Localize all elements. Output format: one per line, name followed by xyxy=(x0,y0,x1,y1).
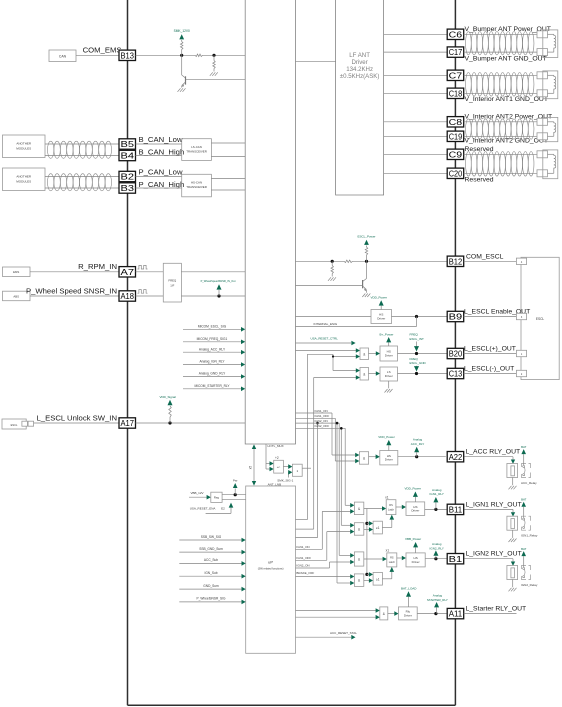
branch to IGN1 lower gate xyxy=(340,428,342,525)
RS latch U9 xyxy=(386,500,396,515)
svg-text:CAN: CAN xyxy=(59,55,67,59)
wire ESCL gate in1 from MICOM xyxy=(296,350,357,352)
ground GND-U7 xyxy=(388,381,390,388)
svg-text:TRANSCEIVER: TRANSCEIVER xyxy=(186,185,207,189)
ABS module box xyxy=(3,291,31,301)
wire HS-CAN to MICOM b xyxy=(211,189,245,191)
svg-text:Driver: Driver xyxy=(404,613,412,617)
wire LS-CAN to MICOM b xyxy=(211,156,245,158)
pin C6 xyxy=(447,29,464,39)
svg-text:MODULES: MODULES xyxy=(16,146,31,150)
wire uP aux column xyxy=(296,537,318,539)
net IGN_Sub xyxy=(179,575,242,577)
wire B4 to transceiver xyxy=(136,155,182,157)
svg-text:P_WheelSNSR_SIG: P_WheelSNSR_SIG xyxy=(196,597,226,601)
power VDD_Power B9 xyxy=(380,306,382,310)
svg-text:C17: C17 xyxy=(449,48,463,57)
wire U10 to B11 xyxy=(425,508,447,510)
svg-text:C7: C7 xyxy=(449,71,463,80)
antenna ANT3 coil body xyxy=(543,117,558,141)
power B+_Power B20 xyxy=(388,342,390,346)
svg-text:VDD_Power: VDD_Power xyxy=(405,487,422,491)
svg-text:(SW related functions): (SW related functions) xyxy=(258,567,284,571)
antenna ANT2 coil body xyxy=(543,71,558,99)
svg-text:MICOM_FREQ_SIG1: MICOM_FREQ_SIG1 xyxy=(197,337,228,341)
RS latch U11 xyxy=(387,553,397,567)
svg-text:ACC_Sub: ACC_Sub xyxy=(204,558,218,562)
svg-text:Reg: Reg xyxy=(214,496,220,500)
pin A17 xyxy=(119,418,136,428)
relay IGN2_Relay coil xyxy=(507,566,518,580)
wire ESCL switch to A17 xyxy=(34,422,119,424)
pin B2 xyxy=(119,171,136,181)
svg-text:FREQ: FREQ xyxy=(168,279,177,283)
bus MICOM to uP xyxy=(253,449,255,482)
node J8 xyxy=(415,455,418,458)
wire B5 to transceiver xyxy=(136,143,182,145)
wire U7 to C13 xyxy=(398,373,448,375)
node J4 xyxy=(365,260,368,263)
svg-text:Driver: Driver xyxy=(351,59,367,66)
net P_WheelSNSR_SIG xyxy=(179,601,242,603)
power tap xyxy=(234,488,236,494)
svg-text:SSB_GND_Sum: SSB_GND_Sum xyxy=(199,547,223,551)
LF ANT Driver block U-LF xyxy=(336,0,384,195)
resistor R-pullup B13 xyxy=(181,50,183,56)
wire latch to HS driver xyxy=(397,557,403,559)
wire LF driver to C19 xyxy=(384,135,448,137)
net IGN2_ON from MICOM xyxy=(296,422,340,424)
pin B13 xyxy=(119,50,136,60)
svg-text:RS: RS xyxy=(389,504,393,507)
svg-text:SMK_12V0: SMK_12V0 xyxy=(174,29,190,33)
svg-text:BAT: BAT xyxy=(521,547,527,551)
twisted pair antenna ANT4 xyxy=(466,152,472,177)
wire B2 to transceiver xyxy=(136,176,182,178)
or gate G9 IGN2 xyxy=(367,573,370,575)
svg-text:L_ESCL(-)_OUT: L_ESCL(-)_OUT xyxy=(464,366,514,373)
pin B20 xyxy=(447,348,464,358)
svg-text:±0.5KHz(ASK): ±0.5KHz(ASK) xyxy=(340,73,380,80)
net SSB_SW_SIG xyxy=(179,539,242,541)
ground GND-term xyxy=(210,72,213,76)
svg-text:Driver: Driver xyxy=(412,560,420,564)
svg-text:IGN1_ON: IGN1_ON xyxy=(315,409,328,413)
node J1 xyxy=(180,54,183,57)
pin B1 xyxy=(447,554,464,564)
svg-text:+/-: +/- xyxy=(277,465,281,469)
wire ESCL direction from uP xyxy=(296,528,314,530)
ground GND-Q2 xyxy=(362,294,365,298)
svg-text:x1: x1 xyxy=(385,495,389,499)
wire C9 to antenna ANT4 xyxy=(464,153,537,155)
uP output stub 4 IGN1_ON xyxy=(296,548,323,550)
or gate G6 IGN1 xyxy=(367,522,370,524)
svg-text:+2: +2 xyxy=(275,456,279,460)
svg-text:VDD_Signal: VDD_Signal xyxy=(160,395,177,399)
relay IGN1_Relay coil xyxy=(507,516,518,530)
wire C19 to antenna ANT3 xyxy=(464,135,537,137)
ground GND-J3 xyxy=(328,277,331,281)
svg-text:V_Interior ANT1 GND_OUT: V_Interior ANT1 GND_OUT xyxy=(465,96,548,103)
svg-text:IGN2_RLY: IGN2_RLY xyxy=(430,546,444,550)
antenna ANT3 connector pad 2 xyxy=(537,133,548,140)
relay ACC_Relay contact xyxy=(522,464,527,468)
MICOM block (box A) xyxy=(245,0,295,444)
relay ACC_Relay coil xyxy=(507,464,518,478)
and gate G10 starter xyxy=(376,608,380,613)
SMK main block left border xyxy=(127,0,129,705)
wire C18 to antenna ANT2 xyxy=(464,92,537,94)
svg-text:ESCL: ESCL xyxy=(536,317,545,321)
svg-text:Analog_GND_RLY: Analog_GND_RLY xyxy=(199,372,226,376)
wire MICOM to LF ANT driver xyxy=(296,61,336,63)
svg-text:Latch: Latch xyxy=(388,508,395,511)
wire B20 to ESCL module xyxy=(464,353,517,355)
svg-text:V_Bumper ANT GND_OUT: V_Bumper ANT GND_OUT xyxy=(465,56,547,63)
svg-text:Driver: Driver xyxy=(385,458,393,462)
svg-text:Analog: Analog xyxy=(433,594,443,598)
and gate G4 IGN1 upper xyxy=(350,503,354,508)
wire C13 to ESCL module xyxy=(464,373,517,375)
svg-text:L_ACC RLY_OUT: L_ACC RLY_OUT xyxy=(466,449,521,456)
ground GND-ACC_Relay xyxy=(509,486,512,490)
svg-text:B3: B3 xyxy=(121,184,135,193)
relay driver U13 xyxy=(399,607,418,620)
pulse symbol A18 xyxy=(138,290,148,294)
svg-text:A22: A22 xyxy=(449,453,463,462)
wire LS-CAN to MICOM a xyxy=(211,142,245,144)
pin B11 xyxy=(447,504,464,514)
svg-text:IGN_Sub: IGN_Sub xyxy=(204,571,217,575)
svg-text:BRAKE_OFF: BRAKE_OFF xyxy=(296,571,314,575)
svg-text:V_Interior ANT2 GND_OUT: V_Interior ANT2 GND_OUT xyxy=(465,138,548,145)
svg-text:IGN2_ON: IGN2_ON xyxy=(296,564,309,568)
power BAT_LOAD starter xyxy=(408,597,410,607)
svg-text:MICOM_STARTER_RLY: MICOM_STARTER_RLY xyxy=(194,384,230,388)
antenna ANT4 connector pad 1 xyxy=(537,151,548,158)
svg-text:IGN1_OFF: IGN1_OFF xyxy=(315,414,330,418)
svg-text:x1: x1 xyxy=(386,548,390,552)
svg-text:GND_Sum: GND_Sum xyxy=(203,584,219,588)
svg-text:HS-CAN: HS-CAN xyxy=(191,181,202,185)
SMK main block bottom border xyxy=(128,704,456,706)
wire D1 to D2 xyxy=(283,466,288,468)
svg-text:IGN1_RLY: IGN1_RLY xyxy=(430,492,444,496)
svg-text:Analog: Analog xyxy=(432,542,442,546)
node J5 xyxy=(415,315,418,318)
svg-text:Analog_ACC_RLY: Analog_ACC_RLY xyxy=(199,347,226,351)
HS driver U6 xyxy=(380,346,398,361)
svg-text:x5: x5 xyxy=(249,466,253,470)
wire MICOM to HS driver B9 xyxy=(296,316,372,318)
wire EMS to A7 xyxy=(30,271,119,273)
svg-text:≥1: ≥1 xyxy=(376,577,380,581)
wire Reg to uP b xyxy=(222,499,246,501)
wire G4 to latch xyxy=(364,508,383,510)
wire latch to HS driver xyxy=(396,506,403,508)
svg-text:EMS: EMS xyxy=(13,270,19,274)
wire B13 to MICOM xyxy=(136,54,196,56)
pin C7 xyxy=(447,70,464,80)
pin C9 xyxy=(447,149,464,159)
power VDD_Signal xyxy=(168,400,173,405)
svg-text:TRANSCEIVER: TRANSCEIVER xyxy=(186,149,207,153)
wire LF driver to C18 xyxy=(384,92,448,94)
resistor R-pullup COM_ESCL xyxy=(366,255,368,261)
svg-text:INTERNAL_ESIG: INTERNAL_ESIG xyxy=(314,322,338,326)
wire IGN2 gate input 1 xyxy=(339,554,351,556)
wire CAN to B13 xyxy=(76,54,119,56)
svg-text:ESCL: ESCL xyxy=(11,423,18,427)
and gate G7 IGN2 upper xyxy=(350,553,354,558)
net ACC_Sub xyxy=(179,562,242,564)
svg-text:Analog: Analog xyxy=(432,488,442,492)
ESCL module box xyxy=(521,257,559,379)
svg-text:USA_RESET_ENA: USA_RESET_ENA xyxy=(190,506,216,510)
transistor Q2 xyxy=(366,261,368,278)
resistor R-series COM_EMS xyxy=(195,54,203,57)
and gate G5 IGN1 lower xyxy=(350,523,354,528)
wire LF driver to C9 xyxy=(384,153,448,155)
wire G2 to LS driver xyxy=(369,373,377,375)
wire C17 to antenna ANT1 xyxy=(464,51,537,53)
svg-text:uP: uP xyxy=(268,560,273,565)
pin B3 xyxy=(119,183,136,193)
relay IGN1_Relay contact xyxy=(522,516,527,520)
wire C7 to antenna ANT2 xyxy=(464,74,537,76)
svg-text:ABS: ABS xyxy=(13,294,19,298)
wire A18 to freq divider xyxy=(136,295,164,297)
svg-text:B2: B2 xyxy=(121,173,135,182)
feedback column xyxy=(366,509,368,575)
svg-text:B20: B20 xyxy=(449,350,463,359)
net ACC_RESET_STAL xyxy=(296,636,352,638)
wire ACC gate input 2 xyxy=(335,460,355,462)
wire U8 to A22 xyxy=(398,456,446,458)
net IGN1_OFF return xyxy=(296,559,327,561)
ESCL switch module box xyxy=(2,419,26,429)
wire Reg to uP a xyxy=(222,494,246,496)
net MICOM_STARTER_RLY xyxy=(183,388,242,390)
regulator U14 xyxy=(211,492,222,502)
net Analog_GND_RLY xyxy=(183,376,242,378)
wire U13 to A11 xyxy=(417,613,446,615)
wire A17 to MICOM xyxy=(136,422,246,424)
pin C18 xyxy=(447,88,464,98)
wire G3 to HS driver xyxy=(369,456,377,458)
antenna ANT1 coil body xyxy=(543,30,558,58)
svg-text:IGN1_Relay: IGN1_Relay xyxy=(521,534,538,538)
svg-text:134.2KHz: 134.2KHz xyxy=(346,66,373,73)
relay IGN2_Relay contact xyxy=(522,566,527,570)
svg-text:L_IGN2 RLY_OUT: L_IGN2 RLY_OUT xyxy=(466,551,522,558)
svg-text:COM_ESCL: COM_ESCL xyxy=(466,253,504,260)
svg-text:B+_Power: B+_Power xyxy=(380,332,394,336)
svg-text:STARTER_RLY: STARTER_RLY xyxy=(427,598,448,602)
wire B12 to ESCL module xyxy=(464,260,517,262)
power SMK_12V0 xyxy=(179,34,184,39)
HS driver U12 xyxy=(406,553,425,567)
twisted pair antenna ANT1 xyxy=(466,32,472,55)
net SMK_SIG-1 xyxy=(288,472,290,477)
pulse symbol A7 xyxy=(138,265,148,269)
wire B9 to ESCL module xyxy=(464,316,517,318)
CAN module box xyxy=(49,50,76,62)
and gate G3 ACC xyxy=(355,453,359,458)
antenna ANT2 connector pad 1 xyxy=(537,72,548,79)
divider D1 xyxy=(266,463,270,465)
svg-text:ANOTHER: ANOTHER xyxy=(16,174,32,178)
svg-text:B5: B5 xyxy=(121,140,135,149)
pin C20 xyxy=(447,168,464,178)
antenna ANT2 connector pad 2 xyxy=(537,90,548,97)
svg-text:ESCL_Power: ESCL_Power xyxy=(357,235,375,239)
pin B12 xyxy=(447,256,464,266)
svg-text:ANOTHER: ANOTHER xyxy=(16,141,32,145)
svg-text:VDD_Power: VDD_Power xyxy=(378,435,395,439)
twisted pair P_CAN xyxy=(48,174,54,191)
svg-text:BAT_LOAD: BAT_LOAD xyxy=(401,587,417,591)
svg-text:VDD_Power: VDD_Power xyxy=(371,295,388,299)
node J11 xyxy=(434,557,437,560)
node J6 xyxy=(415,352,418,355)
antenna ANT1 connector pad 1 xyxy=(537,31,548,38)
svg-text:B4: B4 xyxy=(121,152,135,161)
node J12 xyxy=(365,573,368,576)
wire A11 output xyxy=(464,613,517,615)
HS driver U5 xyxy=(371,310,392,324)
pin C13 xyxy=(447,368,464,378)
svg-text:≥1: ≥1 xyxy=(376,526,380,530)
svg-text:ACC_Relay: ACC_Relay xyxy=(521,481,537,485)
svg-text:Analog: Analog xyxy=(413,438,423,442)
twisted pair antenna ANT3 xyxy=(466,119,472,139)
svg-text:LF ANT: LF ANT xyxy=(349,52,370,59)
and gate G2 ESCL(-) xyxy=(356,368,360,373)
wire A7 to freq divider xyxy=(136,271,164,273)
wire freq divider to MICOM b xyxy=(181,295,245,297)
net INTERNAL_ESIG xyxy=(416,317,418,327)
svg-text:FREQ: FREQ xyxy=(410,332,419,336)
node J3 xyxy=(331,260,334,263)
pin B5 xyxy=(119,139,136,149)
svg-text:A18: A18 xyxy=(121,292,135,301)
HS driver U8 xyxy=(380,451,398,465)
and gate G8 IGN2 lower xyxy=(350,574,354,579)
net IGN1_OFF from MICOM xyxy=(296,417,336,419)
svg-text:C6: C6 xyxy=(449,30,463,39)
svg-text:L_Starter RLY_OUT: L_Starter RLY_OUT xyxy=(466,606,527,613)
wire C6 to antenna ANT1 xyxy=(464,33,537,35)
svg-text:C9: C9 xyxy=(449,150,463,159)
wire LF driver to C7 xyxy=(384,74,448,76)
wire B3 to transceiver xyxy=(136,187,182,189)
pin A18 xyxy=(119,291,136,301)
frequency divider U4 xyxy=(163,263,181,302)
svg-text:IGN2_Relay: IGN2_Relay xyxy=(521,583,538,587)
wire ACC_Relay coil feed xyxy=(465,456,514,458)
svg-text:FREQ: FREQ xyxy=(410,357,419,361)
wire LF driver to C8 xyxy=(384,121,448,123)
svg-text:MICOM_ESCL_SIG: MICOM_ESCL_SIG xyxy=(198,325,227,329)
power VDD_Power ACC xyxy=(388,445,390,450)
svg-text:B12: B12 xyxy=(449,257,463,266)
and gate G1 ESCL(+) xyxy=(356,348,360,353)
power VBB_Power IGN2 xyxy=(415,547,417,553)
net MICOM_FREQ_SIG1 xyxy=(183,341,242,343)
net IGN2_ON return xyxy=(296,567,330,569)
net IGN1_ON from MICOM xyxy=(296,412,333,414)
svg-text:USA_RESET_CTRL: USA_RESET_CTRL xyxy=(311,337,339,341)
ESCL module pad 3 xyxy=(516,350,526,356)
ground GND-IGN1_Relay xyxy=(509,539,512,543)
svg-text:Analog_IGN_RLY: Analog_IGN_RLY xyxy=(199,360,225,364)
LS driver U7 xyxy=(380,367,398,381)
twisted pair antenna ANT2 xyxy=(466,73,472,97)
node A18 tap xyxy=(217,294,220,297)
net Analog_ACC_RLY xyxy=(183,351,242,353)
pin A7 xyxy=(119,267,136,277)
wire P_CAN pair xyxy=(45,176,119,178)
svg-text:ANT_LNB: ANT_LNB xyxy=(268,482,282,486)
wire B_CAN pair xyxy=(45,143,119,145)
antenna ANT3 connector pad 1 xyxy=(537,118,548,125)
svg-text:L_IGN1 RLY_OUT: L_IGN1 RLY_OUT xyxy=(466,501,522,508)
svg-text:B11: B11 xyxy=(449,506,463,515)
pullup network COM_ESCL xyxy=(296,260,345,262)
svg-text:RS: RS xyxy=(390,557,394,560)
svg-text:P_CAN_Low: P_CAN_Low xyxy=(139,168,183,177)
wire U6 to B20 xyxy=(398,353,448,355)
svg-text:Driver: Driver xyxy=(411,509,419,513)
wire LF driver to C17 xyxy=(384,51,448,53)
svg-text:C19: C19 xyxy=(449,132,463,141)
net P_WheelSpeedSNSR_IN_Out xyxy=(218,290,220,296)
svg-text:R_RPM_IN: R_RPM_IN xyxy=(78,262,117,271)
pin A11 xyxy=(447,608,464,618)
svg-text:A17: A17 xyxy=(121,419,135,428)
svg-text:E2: E2 xyxy=(221,506,225,510)
svg-text:LF/TL_MUX: LF/TL_MUX xyxy=(268,444,284,448)
svg-text:ACC_RLY: ACC_RLY xyxy=(411,442,425,446)
svg-text:C20: C20 xyxy=(449,169,463,178)
net MICOM_ESCL_SIG xyxy=(183,328,242,330)
wire Q2 base from MICOM xyxy=(296,284,363,286)
resistor R-series COM_ESCL xyxy=(344,260,352,263)
svg-text:1/F: 1/F xyxy=(170,284,174,288)
svg-text:Driver: Driver xyxy=(385,374,393,378)
wire G9 to latch reset xyxy=(382,578,391,580)
wire LF driver to C20 xyxy=(384,172,448,174)
svg-text:VBB_Power: VBB_Power xyxy=(405,537,421,541)
svg-text:ESCL_INT: ESCL_INT xyxy=(410,337,425,341)
net USA_RESET_CTRL xyxy=(296,342,352,344)
svg-text:B1: B1 xyxy=(449,555,463,564)
wire IGN2_Relay coil feed xyxy=(465,558,514,560)
SMK main block right border / connector bus xyxy=(454,0,456,705)
wire HS driver to B9 xyxy=(392,316,448,318)
wire starter gate input 1 xyxy=(296,610,377,612)
node J14 xyxy=(234,493,237,496)
svg-text:B13: B13 xyxy=(121,51,135,60)
wire C8 to antenna ANT3 xyxy=(464,121,537,123)
wire G7 to latch xyxy=(364,558,383,560)
wire starter gate input 2 xyxy=(296,616,377,618)
svg-text:C18: C18 xyxy=(449,89,463,98)
node J7 xyxy=(415,372,418,375)
power VDD_Power IGN1 xyxy=(414,497,416,502)
